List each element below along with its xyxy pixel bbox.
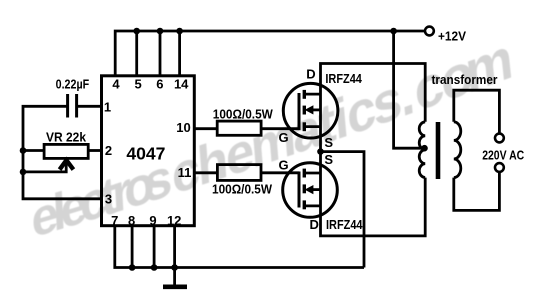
svg-text:D: D [310,217,319,232]
svg-text:IRFZ44: IRFZ44 [325,71,362,86]
svg-text:3: 3 [105,192,112,207]
svg-text:9: 9 [149,213,156,228]
svg-text:100Ω/0.5W: 100Ω/0.5W [212,181,273,196]
svg-text:S: S [324,135,333,150]
svg-text:10: 10 [176,120,190,135]
svg-text:S: S [324,152,333,167]
svg-text:1: 1 [104,100,111,115]
svg-text:IRFZ44: IRFZ44 [326,217,363,232]
svg-text:4047: 4047 [126,144,165,164]
svg-text:2: 2 [105,143,112,158]
svg-text:5: 5 [134,77,141,92]
svg-text:+12V: +12V [438,28,466,43]
svg-text:0.22µF: 0.22µF [56,77,90,92]
svg-text:220V AC: 220V AC [482,148,524,163]
svg-text:12: 12 [167,213,181,228]
svg-text:G: G [279,130,289,145]
svg-text:6: 6 [156,77,163,92]
svg-text:VR 22k: VR 22k [46,130,87,145]
svg-text:14: 14 [174,77,189,92]
svg-text:4: 4 [112,77,120,92]
svg-text:G: G [279,158,289,173]
svg-text:7: 7 [111,213,118,228]
svg-text:8: 8 [128,213,135,228]
svg-text:D: D [306,67,315,82]
svg-text:transformer: transformer [432,72,498,87]
svg-text:11: 11 [178,165,192,180]
svg-text:100Ω/0.5W: 100Ω/0.5W [213,106,274,121]
